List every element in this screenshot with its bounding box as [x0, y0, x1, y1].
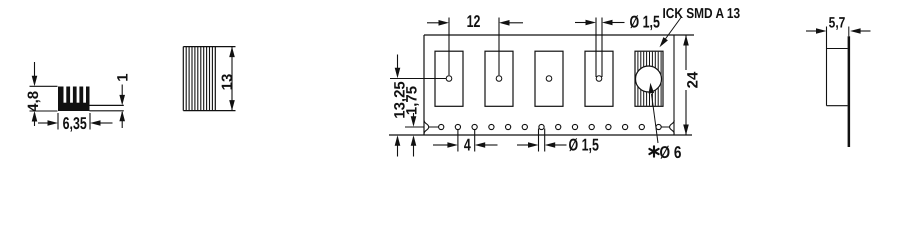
svg-text:6,35: 6,35: [63, 114, 87, 133]
sprocket hole centre line, right: [661, 126, 669, 128]
dimension 13,25: [397, 55, 399, 69]
tape pocket 1: [435, 51, 463, 106]
tape right break line: [673, 35, 675, 135]
svg-text:24: 24: [684, 71, 701, 88]
heatsink top view outline: [183, 46, 235, 48]
dimension 12 pocket pitch: [448, 18, 450, 76]
tape pocket 4: [585, 51, 613, 106]
svg-text:Ø 1,5: Ø 1,5: [630, 13, 660, 32]
sprocket hole centre line, left: [405, 126, 424, 128]
pocket 1 dimple hole: [446, 76, 452, 82]
carrier tape outline: [424, 34, 694, 36]
svg-text:ICK SMD A 13: ICK SMD A 13: [663, 6, 741, 22]
svg-text:1: 1: [115, 73, 132, 81]
tape pocket 2: [485, 51, 513, 106]
svg-text:12: 12: [467, 12, 481, 31]
solder tab of heatsink: [90, 104, 124, 106]
dimension 4,8 height: [30, 85, 58, 87]
tape pocket 5 with heatsink inside (hatched): [635, 51, 663, 106]
leader from label to pocket 5: [663, 18, 681, 43]
dimension 1,75: [413, 113, 415, 117]
dimension 6,35 width: [57, 113, 59, 130]
tape film seen edge-on: [848, 36, 851, 147]
svg-text:13: 13: [219, 74, 236, 91]
pocket 4 dimple hole: [596, 76, 602, 82]
dimension 13 length: [231, 47, 233, 111]
footnote asterisk: [649, 146, 658, 156]
heatsink side profile (black extrusion with fins): [58, 87, 90, 112]
break brace on tape left edge: [424, 120, 429, 133]
leader from footnote to pick-up circle: [652, 94, 659, 143]
break brace on tape right break line: [670, 120, 675, 133]
pocket centre extension line: [390, 78, 446, 80]
dimension dia 1,5 sprocket hole (bottom): [538, 129, 540, 152]
svg-text:5,7: 5,7: [829, 15, 846, 32]
dimension 5,7 overall thickness: [806, 30, 816, 32]
pocket 2 dimple hole: [496, 76, 502, 82]
pocket bulge, end view: [826, 27, 828, 106]
dimension 4 sprocket pitch: [457, 130, 459, 152]
pick-up circle dia 6 on heatsink: [636, 66, 662, 92]
tape pocket 3: [535, 51, 563, 106]
svg-text:4,8: 4,8: [25, 91, 42, 112]
svg-text:Ø 1,5: Ø 1,5: [569, 135, 599, 154]
svg-text:4: 4: [464, 135, 471, 154]
heatsink fins, top view: [185, 47, 187, 111]
dimension 24 tape width: [685, 35, 687, 70]
svg-text:Ø 6: Ø 6: [660, 143, 682, 160]
sprocket holes row: [439, 124, 444, 129]
svg-text:1,75: 1,75: [404, 86, 421, 115]
dimension dia 1,5 pocket dimple (top): [595, 18, 597, 78]
pocket 3 dimple hole: [546, 76, 552, 82]
